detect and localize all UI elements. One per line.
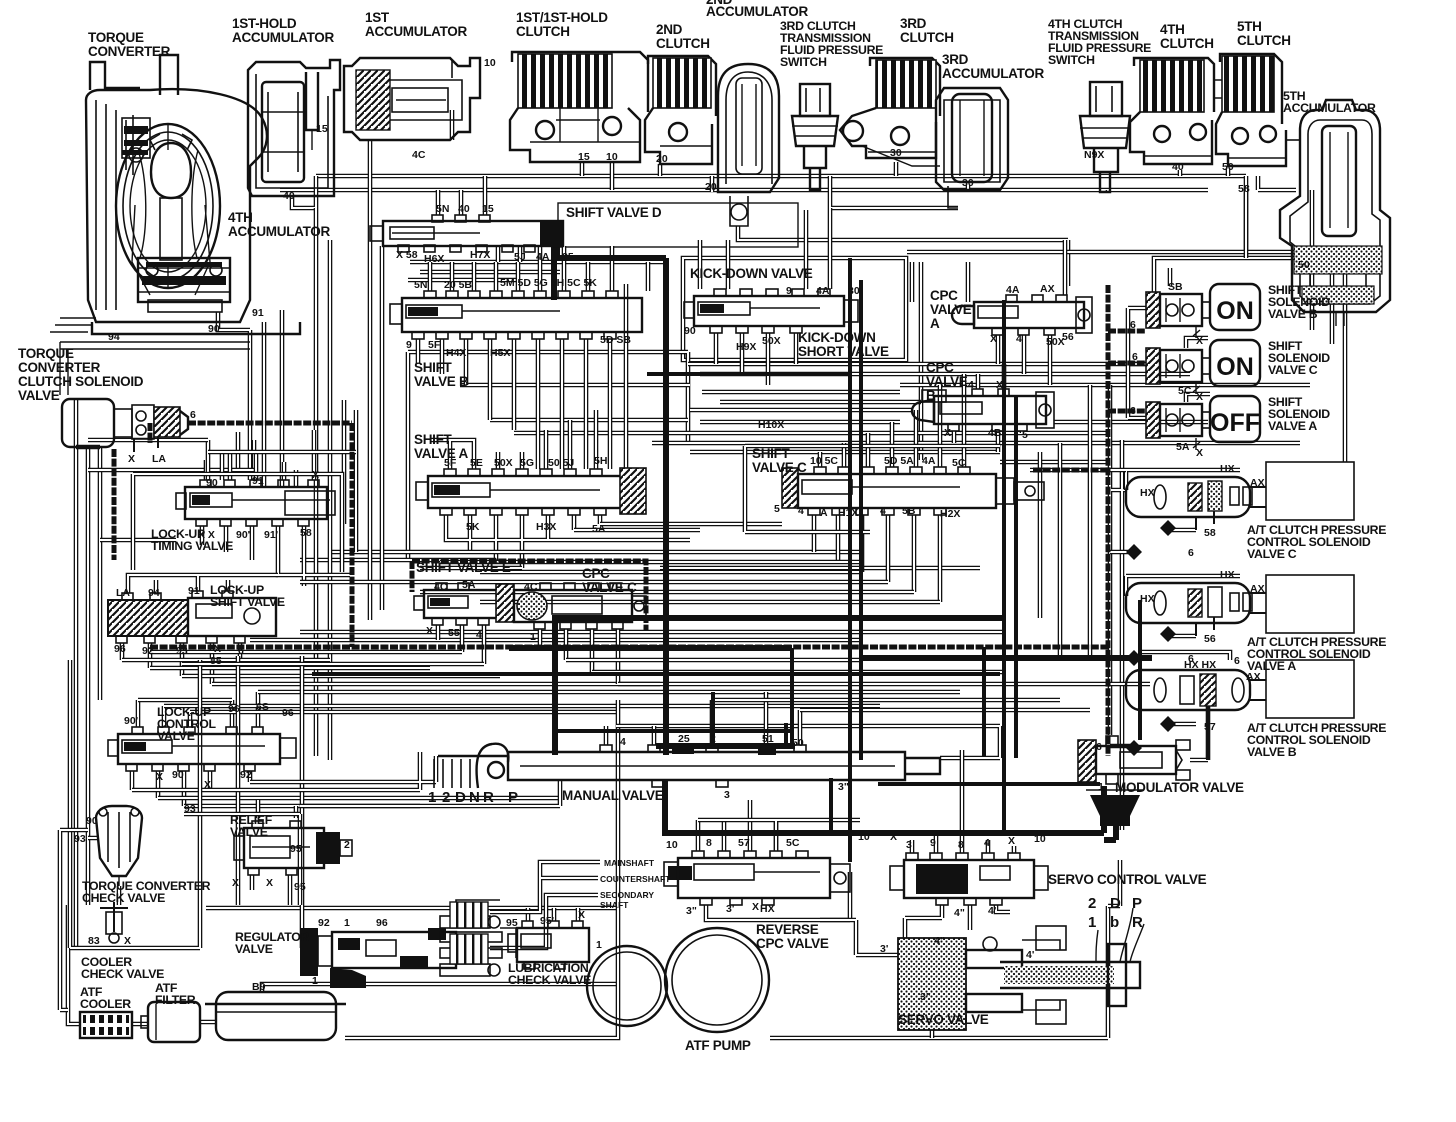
svg-text:9: 9 [406, 339, 412, 351]
svg-text:90': 90' [236, 529, 250, 541]
svg-text:X: X [214, 643, 221, 655]
svg-text:5D SB: 5D SB [600, 334, 631, 346]
svg-text:96: 96 [282, 707, 294, 719]
a/t clutch pressure control solenoid valve A [1126, 575, 1354, 636]
svg-text:AX: AX [1250, 477, 1265, 489]
svg-text:5F: 5F [444, 457, 457, 469]
shift valve C [782, 467, 1044, 515]
svg-text:5E: 5E [470, 457, 483, 469]
wire tc solenoid drops [238, 432, 254, 470]
wire 5th acc feed [1246, 176, 1312, 330]
svg-text:5A: 5A [462, 579, 476, 591]
svg-text:HX: HX [1140, 487, 1155, 499]
svg-text:92: 92 [240, 769, 252, 781]
svg-text:6S: 6S [256, 701, 269, 713]
svg-text:VALVE B: VALVE B [414, 374, 469, 389]
svg-text:90: 90 [208, 323, 220, 335]
svg-text:P: P [508, 789, 518, 806]
modulator drain funnel [1086, 790, 1144, 826]
svg-text:SB: SB [1168, 281, 1183, 293]
svg-text:4: 4 [620, 736, 626, 748]
wire reverse cpc links [698, 800, 850, 920]
svg-text:HX: HX [1220, 463, 1235, 475]
svg-text:ACCUMULATOR: ACCUMULATOR [365, 24, 467, 39]
wire left horizontals [76, 447, 254, 540]
wire servo valve feed [820, 920, 898, 955]
svg-text:MODULATOR VALVE: MODULATOR VALVE [1115, 780, 1244, 795]
svg-text:TORQUE: TORQUE [18, 346, 74, 361]
tc clutch solenoid valve [62, 399, 188, 452]
svg-text:H6X: H6X [424, 253, 444, 265]
svg-text:9: 9 [930, 837, 936, 849]
svg-text:4A: 4A [1006, 284, 1020, 296]
port numbers top [74, 57, 1310, 1003]
svg-text:4': 4' [988, 905, 996, 917]
svg-text:A: A [930, 316, 940, 331]
svg-text:VALVE B: VALVE B [1247, 745, 1297, 759]
svg-text:94: 94 [108, 331, 120, 343]
wire thick y374 stub [647, 372, 852, 376]
svg-text:ACCUMULATOR: ACCUMULATOR [1283, 101, 1376, 115]
a/t clutch pressure control solenoid valve C [1126, 462, 1354, 530]
svg-text:X 58: X 58 [396, 249, 418, 261]
manual valve [434, 744, 940, 788]
svg-text:90': 90' [124, 715, 138, 727]
svg-text:CLUTCH: CLUTCH [1160, 36, 1214, 51]
svg-text:CHECK VALVE: CHECK VALVE [81, 967, 164, 981]
svg-text:92: 92 [318, 917, 330, 929]
shift valve E [414, 583, 514, 625]
svg-text:1: 1 [344, 917, 350, 929]
svg-text:B9: B9 [252, 981, 266, 993]
svg-text:VALVE: VALVE [930, 302, 972, 317]
3rd clutch [840, 58, 940, 166]
svg-text:VALVE A: VALVE A [414, 446, 468, 461]
svg-text:20: 20 [656, 153, 668, 165]
svg-text:TORQUE: TORQUE [88, 30, 144, 45]
wire servo right box [1108, 860, 1120, 906]
5th clutch [1214, 54, 1300, 166]
atf filter [141, 1002, 200, 1042]
svg-text:ACCUMULATOR: ACCUMULATOR [706, 4, 808, 19]
wire lock-up timing bottoms [202, 526, 350, 586]
wire kick-down bottom drops [716, 333, 796, 385]
svg-text:50X: 50X [762, 335, 781, 347]
svg-text:4C: 4C [524, 581, 538, 593]
svg-text:83: 83 [88, 935, 100, 947]
svg-text:8: 8 [706, 837, 712, 849]
svg-text:5N: 5N [436, 203, 449, 215]
wire shift c top feeds [820, 374, 964, 467]
svg-text:D: D [455, 789, 466, 806]
wire cpc b links [954, 364, 1022, 452]
svg-text:90: 90 [206, 477, 218, 489]
svg-text:96: 96 [376, 917, 388, 929]
wire tc check valve link [88, 838, 119, 905]
svg-text:5J: 5J [514, 251, 526, 263]
svg-text:SECONDARY: SECONDARY [600, 890, 654, 900]
svg-text:N: N [469, 789, 480, 806]
svg-text:SHIFT VALVE D: SHIFT VALVE D [566, 205, 662, 220]
svg-text:6: 6 [1188, 653, 1194, 665]
svg-text:40: 40 [1172, 161, 1184, 173]
svg-text:4': 4' [1026, 949, 1034, 961]
svg-text:4: 4 [1016, 333, 1022, 345]
svg-text:85: 85 [210, 655, 222, 667]
1st/1st-hold clutch [510, 52, 648, 162]
wire y630-645 [250, 632, 1004, 640]
svg-text:3RD: 3RD [900, 16, 927, 31]
svg-text:3": 3" [838, 781, 849, 793]
svg-text:57: 57 [738, 837, 750, 849]
svg-text:R: R [483, 789, 494, 806]
wire shift valve D label box [558, 203, 798, 247]
svg-text:91: 91 [252, 307, 264, 319]
wire bottom mesh [60, 752, 436, 1010]
cpc valve A [952, 295, 1092, 335]
svg-text:LA: LA [152, 453, 166, 465]
svg-text:REVERSE: REVERSE [756, 922, 819, 937]
svg-text:3': 3' [880, 943, 888, 955]
wire y652-684 left [150, 652, 1150, 684]
svg-text:4C: 4C [434, 581, 448, 593]
wire lock-up shift bottoms [122, 643, 240, 684]
svg-text:1ST: 1ST [365, 10, 390, 25]
wire right bus to solenoids [1246, 176, 1332, 344]
svg-text:4TH: 4TH [228, 210, 253, 225]
shift valve A [416, 468, 646, 515]
shift valve D [370, 215, 563, 252]
1st accumulator [344, 58, 480, 140]
wire right verticals lower [1040, 385, 1090, 658]
THICK [114, 246, 1208, 862]
svg-text:30: 30 [890, 147, 902, 159]
wire bottom bus y908 [206, 906, 616, 911]
svg-text:VALVE B: VALVE B [1268, 307, 1318, 321]
svg-text:5C: 5C [1178, 385, 1192, 397]
svg-text:SHIFT VALVE E: SHIFT VALVE E [416, 560, 511, 575]
svg-text:96: 96 [228, 703, 240, 715]
wire shift valve B group box [408, 352, 688, 558]
svg-text:CLUTCH: CLUTCH [656, 36, 710, 51]
wire spool A top feeds [430, 410, 596, 469]
svg-text:H2X: H2X [940, 508, 960, 520]
wire modulator links [1190, 700, 1208, 760]
svg-text:51: 51 [762, 733, 774, 745]
wire cpc a bottom drops [998, 335, 1050, 385]
svg-text:5M 5D 5G 5H 5C 5K: 5M 5D 5G 5H 5C 5K [500, 277, 597, 289]
wire hatched LA stub [114, 423, 150, 560]
svg-text:AX: AX [1040, 283, 1055, 295]
svg-text:4: 4 [880, 505, 886, 517]
svg-text:93: 93 [176, 645, 188, 657]
wire lock-up timing top feeds [206, 430, 314, 480]
wire left box tall [70, 656, 302, 948]
svg-text:1: 1 [1098, 781, 1104, 793]
svg-text:SHIFT: SHIFT [414, 360, 453, 375]
wire cpc c bottom drops [540, 629, 618, 684]
svg-text:3": 3" [920, 991, 931, 1003]
wire lock-up control tops [138, 692, 258, 727]
svg-text:1: 1 [1088, 914, 1096, 931]
wire servo control bottoms [905, 905, 1010, 938]
svg-text:10: 10 [606, 151, 618, 163]
svg-text:SHIFT: SHIFT [752, 446, 791, 461]
wire servo drain [930, 1030, 935, 1038]
svg-text:TIMING VALVE: TIMING VALVE [151, 539, 233, 553]
svg-text:R: R [1132, 914, 1143, 931]
svg-text:D: D [1110, 895, 1121, 912]
svg-text:5TH: 5TH [1237, 19, 1262, 34]
cpc valve C [514, 583, 646, 629]
svg-text:93: 93 [184, 803, 196, 815]
svg-text:30: 30 [962, 177, 974, 189]
wire heavy y784 right [878, 782, 1100, 786]
wire heavy right verticals [1140, 600, 1208, 760]
svg-text:10: 10 [1034, 833, 1046, 845]
svg-text:6: 6 [1234, 655, 1240, 667]
wire heavy y618 [552, 615, 1004, 621]
servo valve [898, 908, 1144, 1030]
wire accumulator 1st-hold drop [292, 176, 316, 208]
svg-text:4B: 4B [988, 427, 1002, 439]
svg-text:1ST/1ST-HOLD: 1ST/1ST-HOLD [516, 10, 608, 25]
svg-text:58: 58 [1238, 183, 1250, 195]
lock-up control valve [108, 727, 296, 771]
svg-text:CLUTCH: CLUTCH [516, 24, 570, 39]
TC turbine hub detail [126, 115, 133, 175]
wire bus y560 [300, 558, 496, 563]
svg-text:COOLER: COOLER [80, 997, 131, 1011]
modulator valve [1078, 736, 1190, 784]
wire bus y410 [490, 410, 912, 420]
svg-text:X: X [1196, 447, 1203, 459]
wire hatched solenoid branches [1033, 331, 1146, 470]
wire bus y443 [652, 441, 1300, 446]
wire bus y660-684 [122, 660, 660, 684]
svg-text:25: 25 [562, 251, 574, 263]
svg-text:91': 91' [264, 529, 278, 541]
svg-text:AX: AX [1246, 671, 1261, 683]
svg-text:H4X: H4X [446, 347, 466, 359]
relief valve [234, 821, 352, 875]
shift solenoid valve B [1146, 284, 1260, 338]
kick-down valve [684, 289, 858, 333]
svg-text:2: 2 [344, 839, 350, 851]
svg-text:H10X: H10X [758, 419, 784, 431]
svg-text:4A: 4A [816, 285, 830, 297]
svg-text:50X: 50X [1046, 336, 1065, 348]
wire bottom left loop [68, 905, 616, 1024]
wire top bus 2 [280, 188, 1208, 193]
wire lock-up control bottoms [132, 771, 250, 806]
wire bus y433 [514, 431, 1110, 436]
svg-text:1: 1 [596, 939, 602, 951]
2nd clutch [645, 56, 716, 164]
svg-text:HX: HX [760, 903, 775, 915]
svg-text:SHIFT VALVE: SHIFT VALVE [210, 595, 285, 609]
svg-text:X: X [156, 771, 163, 783]
svg-text:HX: HX [1220, 569, 1235, 581]
svg-text:5G: 5G [520, 457, 534, 469]
wire y700-710 [712, 700, 1090, 710]
svg-text:ACCUMULATOR: ACCUMULATOR [942, 66, 1044, 81]
wire bus y562-602 [300, 562, 940, 602]
wire bus y552 [330, 550, 860, 555]
svg-text:92: 92 [142, 645, 154, 657]
TC inner egg [151, 143, 191, 198]
svg-text:2ND: 2ND [656, 22, 683, 37]
shift valve B [390, 291, 642, 339]
svg-text:6: 6 [190, 409, 196, 421]
svg-text:15: 15 [482, 203, 494, 215]
wire bus y568 [420, 566, 980, 571]
svg-text:H5X: H5X [490, 347, 510, 359]
wire clutch feed stubs [582, 162, 1228, 192]
svg-text:4: 4 [984, 837, 990, 849]
svg-text:90: 90 [684, 325, 696, 337]
svg-text:15: 15 [316, 123, 328, 135]
svg-text:94: 94 [148, 587, 160, 599]
wire heavy x555 drop [552, 618, 558, 755]
svg-text:1: 1 [312, 975, 318, 987]
svg-text:b: b [1110, 914, 1119, 931]
svg-text:P: P [1132, 895, 1142, 912]
svg-text:SWITCH: SWITCH [1048, 53, 1095, 67]
svg-text:X: X [578, 909, 585, 921]
wire bus y452 [690, 392, 1000, 452]
svg-text:95: 95 [506, 917, 518, 929]
svg-text:25: 25 [678, 733, 690, 745]
wire manual valve right [616, 726, 1000, 758]
svg-text:30: 30 [848, 285, 860, 297]
wire 2nd acc to kickdown [738, 226, 1068, 286]
wire y452-470 left [88, 440, 356, 452]
svg-text:X: X [752, 901, 759, 913]
svg-text:95': 95' [540, 915, 554, 927]
wire shift c bottom drops [814, 515, 940, 602]
svg-text:VALVE C: VALVE C [752, 460, 807, 475]
wire spool B top feeds [430, 246, 612, 291]
svg-text:5A: 5A [592, 523, 606, 535]
wire shift e bottoms [438, 625, 484, 664]
svg-text:VALVE: VALVE [230, 825, 268, 839]
wire manual valve top feeds [606, 692, 800, 745]
svg-text:40: 40 [283, 190, 295, 202]
3rd accumulator [936, 88, 1008, 208]
svg-text:N9X: N9X [1084, 149, 1104, 161]
svg-text:4TH: 4TH [1160, 22, 1185, 37]
svg-text:CLUTCH: CLUTCH [900, 30, 954, 45]
svg-text:X: X [204, 779, 211, 791]
wire bus y262 [408, 262, 668, 280]
svg-text:3': 3' [726, 903, 734, 915]
svg-text:CHECK VALVE: CHECK VALVE [508, 973, 591, 987]
TC inner ellipse [116, 124, 220, 288]
svg-text:20 5B: 20 5B [444, 279, 472, 291]
svg-text:MANUAL VALVE: MANUAL VALVE [562, 788, 664, 803]
svg-text:1: 1 [428, 789, 436, 806]
atf cooler [80, 1012, 132, 1038]
svg-text:SHIFT: SHIFT [414, 432, 453, 447]
svg-text:X: X [1008, 835, 1015, 847]
svg-text:5H: 5H [594, 455, 607, 467]
svg-text:VALVE A: VALVE A [1268, 419, 1317, 433]
wire heavy modulator drain [1104, 826, 1116, 840]
wire servo control links [912, 750, 1014, 853]
svg-text:X: X [944, 427, 951, 439]
svg-text:2: 2 [710, 733, 716, 745]
wire timing valve box [133, 474, 342, 572]
1st-hold accumulator [248, 60, 340, 196]
wire tc bottom links [218, 310, 282, 487]
svg-text:50 5J: 50 5J [548, 457, 574, 469]
wire top bus 1 [316, 174, 1246, 179]
svg-text:VALVE C: VALVE C [1247, 547, 1297, 561]
svg-text:10: 10 [666, 839, 678, 851]
svg-text:96: 96 [114, 643, 126, 655]
svg-text:20: 20 [705, 181, 717, 193]
wire bus y374 [700, 372, 1190, 377]
wire left risers 3 [208, 400, 356, 552]
svg-text:KICK-DOWN: KICK-DOWN [798, 330, 876, 345]
svg-text:5C: 5C [786, 837, 800, 849]
svg-text:X: X [1196, 335, 1203, 347]
wire heavy y748 [656, 743, 795, 749]
lock-up timing valve [176, 480, 335, 526]
wire shift valve D top feeds [438, 176, 485, 215]
svg-text:COUNTERSHAFT: COUNTERSHAFT [600, 874, 671, 884]
wire heavy y674 [312, 672, 1000, 676]
svg-text:H7X: H7X [470, 249, 490, 261]
svg-text:4": 4" [934, 935, 945, 947]
svg-text:5D 5A: 5D 5A [884, 455, 914, 467]
svg-text:6: 6 [1130, 319, 1136, 331]
wire heavy x984 [982, 647, 986, 757]
reverse cpc valve [664, 851, 850, 905]
servo control valve [890, 853, 1048, 905]
wire right horizontals y456-470 [1000, 462, 1126, 470]
atf pump [587, 928, 769, 1032]
TC bottom bearing block [138, 258, 230, 302]
svg-text:6: 6 [238, 645, 244, 657]
svg-text:X: X [124, 935, 131, 947]
svg-text:95: 95 [294, 881, 306, 893]
svg-text:4: 4 [476, 629, 482, 641]
svg-text:FILTER: FILTER [155, 993, 196, 1007]
4th clutch [1130, 58, 1214, 164]
wire bottom box [345, 700, 1108, 1038]
cooler check valve [100, 902, 128, 943]
svg-text:X: X [1196, 391, 1203, 403]
svg-text:SERVO VALVE: SERVO VALVE [898, 1012, 989, 1027]
svg-text:ACCUMULATOR: ACCUMULATOR [228, 224, 330, 239]
svg-text:VALVE: VALVE [18, 388, 60, 403]
svg-text:3: 3 [906, 839, 912, 851]
svg-text:1ST-HOLD: 1ST-HOLD [232, 16, 297, 31]
svg-text:VALVE: VALVE [926, 374, 968, 389]
svg-text:6: 6 [1096, 741, 1102, 753]
wire hatched LA line [188, 423, 352, 647]
svg-text:ON: ON [1216, 353, 1254, 381]
svg-text:5A: 5A [1176, 441, 1190, 453]
svg-text:1: 1 [662, 787, 668, 799]
wire shaft feed lines [490, 862, 600, 948]
svg-text:40: 40 [458, 203, 470, 215]
svg-text:5: 5 [1022, 429, 1028, 441]
svg-text:X: X [312, 469, 319, 481]
lubrication check valve [508, 921, 589, 969]
